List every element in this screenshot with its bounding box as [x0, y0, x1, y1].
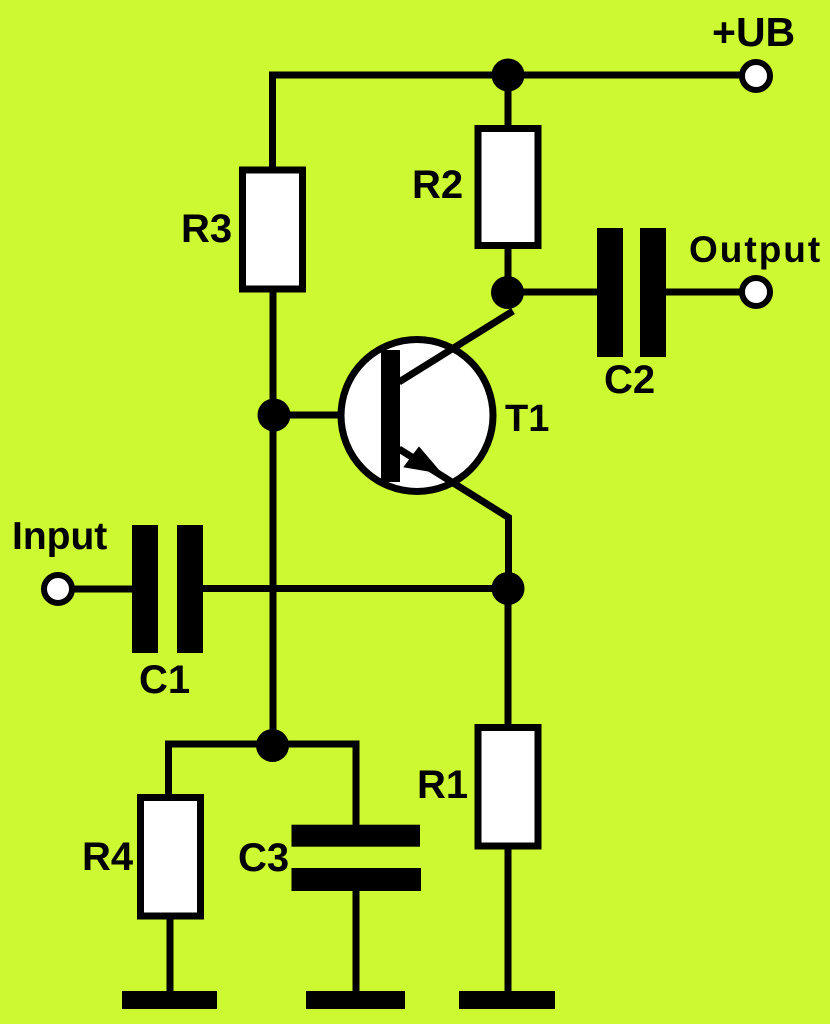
- svg-text:C3: C3: [238, 836, 289, 880]
- svg-text:R2: R2: [412, 163, 463, 207]
- capacitor C3: [292, 825, 422, 891]
- node D: emitter node: [492, 572, 525, 605]
- svg-text:C2: C2: [604, 358, 655, 402]
- terminal Input: [44, 575, 72, 603]
- capacitor C1: [132, 525, 203, 653]
- node C: base node: [258, 399, 291, 432]
- svg-text:Input: Input: [12, 515, 107, 558]
- ground (below R4): [122, 991, 217, 1009]
- wire: C2 to Output terminal: [666, 289, 741, 296]
- emitter lead: [399, 449, 509, 588]
- terminal +UB: [742, 62, 770, 90]
- svg-text:R3: R3: [181, 207, 232, 251]
- svg-text:Output: Output: [689, 229, 822, 270]
- collector lead: [399, 311, 513, 382]
- wire: bottom node arms to R4 and C3: [169, 744, 357, 828]
- wire: C3 bottom to ground: [353, 890, 360, 995]
- wire: +UB rail (R3 top up and across to +UB terminal): [273, 75, 742, 170]
- resistor R1: [478, 728, 538, 847]
- wire: C1 to emitter node: [203, 585, 508, 592]
- node E: bottom bias node: [256, 729, 289, 762]
- transistor T1: [341, 311, 513, 588]
- wire: collector node to C2: [507, 289, 597, 296]
- svg-text:R4: R4: [82, 835, 134, 879]
- node A: supply rail junction above R2: [492, 59, 525, 92]
- svg-text:C1: C1: [139, 658, 190, 702]
- node B: collector node: [491, 276, 524, 309]
- ground (below R1): [459, 991, 555, 1009]
- wire: node A down to R2: [505, 75, 512, 130]
- svg-text:R1: R1: [417, 763, 468, 807]
- wire: R1 bottom to ground: [505, 846, 512, 995]
- resistor R3: [243, 170, 303, 289]
- resistor R2: [478, 129, 538, 246]
- wire: Input terminal to C1: [72, 586, 132, 593]
- emitter arrow: [405, 448, 440, 473]
- wire: emitter node down to R1: [505, 588, 512, 727]
- wire: base node to transistor base: [274, 412, 382, 419]
- svg-text:T1: T1: [505, 398, 549, 440]
- wire: R4 bottom to ground: [167, 913, 174, 995]
- terminal Output: [742, 278, 770, 306]
- svg-text:+UB: +UB: [712, 9, 795, 55]
- capacitor C2: [597, 228, 666, 357]
- ground (below C3): [306, 991, 405, 1009]
- wire: R2 bottom to collector node: [505, 248, 512, 292]
- resistor R4: [141, 798, 201, 917]
- wire: R3 bottom through base node down to bottom node: [270, 289, 277, 745]
